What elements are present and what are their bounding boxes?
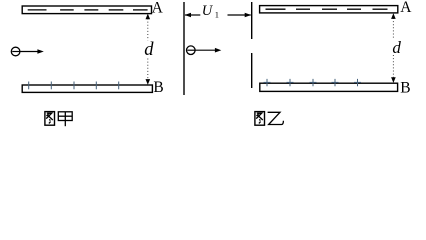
svg-text:U: U [202,3,214,19]
caption 图甲 : glyph 图 [45,112,55,126]
negative charge dashes on plate A (figure 2) [266,8,388,10]
velocity arrow (figure 1) [21,51,39,53]
plate A (figure 1 top plate) [22,6,151,14]
gap dimension dotted line d (figure 1) [147,19,149,80]
plate B (figure 1 bottom plate) [22,85,152,92]
gap dimension dotted line d (figure 2) [392,18,394,79]
negative charge dashes on plate A (figure 1) [28,9,148,11]
minus sign in particle (figure 1) [12,51,20,53]
arrowhead down to plate B (figure 1) [146,79,151,85]
svg-text:B: B [400,79,410,96]
svg-text:A: A [152,0,164,16]
caption 图乙 : glyph 乙 [268,112,284,124]
svg-text:d: d [392,38,401,57]
arrowhead down to plate B (figure 2) [391,77,396,83]
charged particle (figure 1) [11,47,20,56]
caption 图甲 : glyph 甲 [58,112,72,126]
arrowhead up to plate A (figure 1) [146,14,151,20]
charged particle (middle) [187,46,196,55]
velocity arrow (middle) [196,49,217,51]
positive charge plus signs on plate B (figure 2) [264,79,362,86]
U1 dimension right arrow [228,14,251,16]
plate B (figure 2 bottom plate) [260,83,398,91]
plate A (figure 2 top plate) [260,6,398,13]
positive charge ticks on plate B (figure 1) [29,82,119,90]
svg-text:B: B [153,79,163,96]
middle right grid plate upper segment [251,2,253,39]
U1 dimension left arrow [185,14,200,16]
svg-text:1: 1 [215,10,219,20]
caption 图乙 : glyph 图 [255,112,265,126]
minus sign in particle (middle) [187,49,195,51]
svg-text:A: A [400,0,412,16]
middle right grid plate lower segment [251,53,253,88]
svg-text:d: d [144,40,154,60]
middle left grid plate (vertical line) [183,2,185,95]
arrowhead up to plate A (figure 2) [391,13,396,19]
